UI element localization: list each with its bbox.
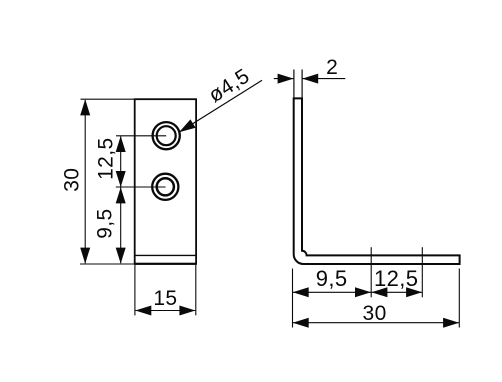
svg-text:12,5: 12,5 [374, 266, 418, 291]
arrow 2 right [302, 74, 318, 84]
dimension 2 right tail [302, 78, 345, 80]
hole H2 outer circle [152, 174, 178, 200]
extension line 15 left [134, 264, 136, 315]
arrow 2 left [278, 74, 294, 84]
extension line 2 right (inner face up) [301, 70, 303, 99]
extension line plate bottom left [80, 263, 135, 265]
dimension 2 left tail [274, 78, 294, 80]
arrow 30 bottom left [293, 318, 309, 328]
svg-text:12,5: 12,5 [94, 137, 117, 179]
svg-text:9,5: 9,5 [93, 208, 116, 238]
angle bracket profile (side view) [294, 98, 460, 264]
arrow 9,5 left [293, 287, 309, 297]
extension line hole position 9,5 [370, 247, 372, 297]
svg-text:9,5: 9,5 [316, 266, 348, 291]
arrow 12,5 left [371, 287, 387, 297]
extension line plate top left [81, 98, 135, 100]
arrow 9,5 right [355, 287, 371, 297]
arrow 12,5 top [116, 136, 126, 152]
arrow 15 right [179, 306, 195, 316]
extension line hole position 12,5 [421, 247, 423, 297]
leader arrowhead at hole [179, 119, 196, 132]
svg-text:30: 30 [363, 302, 387, 325]
arrow 30 top [80, 99, 90, 115]
plate outline (front view) [135, 99, 196, 264]
center line hole H1 [116, 135, 166, 137]
dimension line 9,5 / 12,5 (bottom) [293, 291, 422, 293]
arrow 30 bottom right [443, 318, 459, 328]
arrow 15 left [135, 306, 151, 316]
leader line for hole diameter [180, 80, 262, 132]
arrow 9,5 top [116, 187, 126, 203]
arrow 30 bottom [80, 248, 90, 264]
bend line on plate [135, 254, 196, 256]
center line hole H2 [116, 186, 166, 188]
plate bottom edge (thicker) [135, 263, 196, 265]
svg-text:30: 30 [61, 168, 84, 192]
dimension line 15 [136, 310, 196, 312]
extension line 2 left (outer face up) [293, 70, 295, 99]
arrow 9,5 bottom [116, 248, 126, 264]
arrow 12,5 right [406, 287, 422, 297]
dimension line 12,5 / 9,5 (left) [120, 136, 122, 263]
dimension line 30 (bottom) [293, 322, 459, 324]
arrow 12,5 bottom [116, 171, 126, 187]
hole H2 inner circle [157, 178, 174, 195]
hole H1 outer circle [153, 122, 180, 149]
extension line 30 right end [458, 269, 460, 328]
hole H1 inner circle [157, 126, 176, 145]
extension line 15 right [195, 264, 197, 315]
svg-text:2: 2 [326, 56, 338, 79]
extension line bottom left (outer face down) [292, 269, 294, 328]
svg-text:15: 15 [153, 287, 177, 310]
dimension line 30 (left) [84, 100, 86, 263]
